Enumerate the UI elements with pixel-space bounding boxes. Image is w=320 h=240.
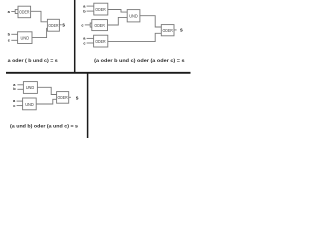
svg-text:s: s [76, 95, 79, 101]
svg-text:ODER: ODER [95, 7, 105, 12]
svg-text:ODER: ODER [95, 39, 105, 44]
svg-text:ODER: ODER [58, 95, 68, 100]
svg-text:ODER: ODER [19, 9, 29, 14]
svg-text:ODER: ODER [163, 28, 173, 33]
svg-text:ODER: ODER [94, 23, 104, 28]
svg-text:UND: UND [129, 13, 138, 18]
svg-text:UND: UND [25, 102, 34, 107]
svg-text:s: s [62, 22, 65, 28]
svg-text:(a oder b und c) oder (a oder: (a oder b und c) oder (a oder c) = s [94, 58, 185, 64]
svg-text:(a und b) oder (a und c) = s: (a und b) oder (a und c) = s [10, 124, 78, 130]
svg-text:a oder ( b und c) = s: a oder ( b und c) = s [8, 58, 58, 64]
svg-text:UND: UND [26, 85, 35, 90]
svg-text:ODER: ODER [48, 23, 58, 28]
svg-text:s: s [180, 27, 183, 33]
svg-text:UND: UND [21, 36, 30, 41]
